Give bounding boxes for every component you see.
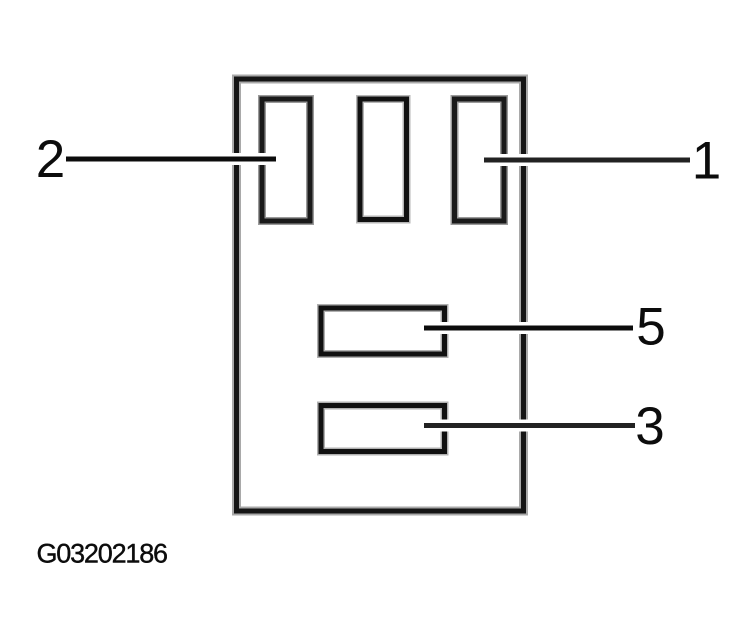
pin slot middle (unnumbered vertical terminal) bbox=[360, 99, 407, 220]
svg-text:2: 2 bbox=[36, 130, 65, 189]
pin slot 5 (middle horizontal terminal) bbox=[321, 308, 445, 354]
svg-text:3: 3 bbox=[635, 397, 664, 456]
leader line to pin 2 bbox=[66, 153, 276, 165]
svg-text:5: 5 bbox=[636, 298, 665, 357]
pin slot 1 (top-right vertical terminal) bbox=[455, 99, 505, 221]
svg-text:G03202186: G03202186 bbox=[37, 539, 168, 569]
leader line to pin 3 bbox=[424, 420, 635, 432]
leader line to pin 5 bbox=[424, 322, 633, 334]
connector body outline bbox=[237, 79, 524, 511]
svg-text:1: 1 bbox=[692, 132, 721, 191]
leader line to pin 1 bbox=[484, 154, 690, 166]
pin slot 2 (top-left vertical terminal) bbox=[262, 99, 310, 221]
pin slot 3 (bottom horizontal terminal) bbox=[321, 406, 445, 452]
